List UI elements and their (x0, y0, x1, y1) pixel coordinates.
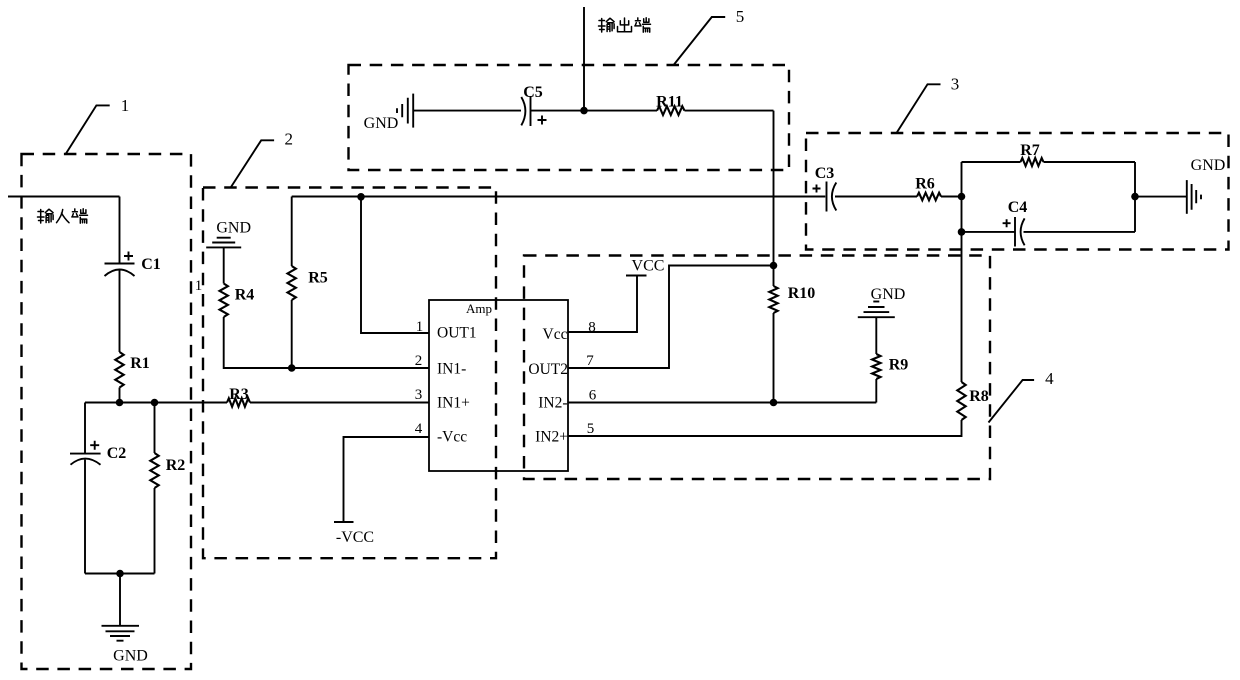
resistor R11 (657, 106, 685, 115)
dashed box 2 (first amp stage) (203, 188, 496, 559)
svg-text:-VCC: -VCC (336, 529, 374, 546)
junction OUT2/R10 (770, 262, 778, 270)
svg-text:-Vcc: -Vcc (437, 429, 467, 446)
wire pin6 rail (568, 402, 876, 404)
svg-text:GND: GND (113, 648, 148, 665)
dashed box 4 (second amp stage) (524, 256, 990, 480)
svg-text:C1: C1 (141, 256, 161, 273)
ground symbol box2 (217, 237, 231, 239)
wire R6 to node (941, 196, 962, 198)
svg-text:GND: GND (364, 115, 399, 132)
svg-text:IN2-: IN2- (538, 395, 567, 412)
svg-text:R10: R10 (788, 285, 816, 302)
junction OUT1 riser (357, 193, 365, 201)
wire R5 to pin2 rail (291, 300, 293, 368)
wire OUT1 riser to pin1 (361, 197, 429, 333)
wire R7 branch right (1044, 161, 1136, 163)
svg-text:7: 7 (586, 353, 594, 369)
wire left branch riser (961, 162, 963, 232)
wire ground to R9 (875, 317, 877, 354)
wire pin4 to -VCC (344, 437, 430, 522)
wire R2 to bottom rail (154, 488, 156, 574)
wire horizontal node row to R3 (85, 402, 227, 404)
svg-text:1: 1 (195, 278, 203, 294)
wire node to C2 (84, 403, 86, 454)
wire node to R2 (154, 403, 156, 454)
wire R1 to node (119, 388, 121, 403)
resistor R1 (115, 352, 123, 388)
wire to ground box1 (119, 574, 121, 626)
svg-text:OUT1: OUT1 (437, 324, 477, 341)
wire node to ground box3 (1135, 196, 1187, 198)
svg-text:1: 1 (416, 319, 424, 335)
wire ground to R4 (223, 247, 225, 283)
wire node down to R8 (961, 232, 963, 382)
junction output node (580, 107, 588, 115)
wire R7 branch left (962, 161, 1021, 163)
svg-text:2: 2 (415, 353, 423, 369)
junction R4/R5 pin2 (288, 364, 296, 372)
svg-text:VCC: VCC (632, 258, 665, 275)
svg-text:IN1-: IN1- (437, 361, 466, 378)
svg-text:GND: GND (216, 220, 251, 237)
svg-text:5: 5 (736, 7, 745, 26)
resistor R7 (1021, 158, 1044, 166)
wire C4 branch right (1024, 231, 1136, 233)
junction R1 bottom (116, 399, 124, 407)
junction R10 bottom pin6 (770, 399, 778, 407)
label 5 leader (674, 17, 725, 65)
wire R11 to descender (685, 110, 774, 112)
svg-text:IN2+: IN2+ (535, 429, 568, 446)
svg-text:4: 4 (1045, 369, 1054, 388)
svg-text:Vcc: Vcc (543, 326, 568, 343)
svg-text:GND: GND (871, 286, 906, 303)
svg-text:4: 4 (415, 421, 423, 437)
wire pin5 rail (568, 420, 962, 436)
wire output riser (583, 7, 585, 111)
svg-text:R11: R11 (656, 94, 683, 111)
resistor R4 (220, 284, 228, 318)
wire C5 to output node (531, 110, 658, 112)
svg-text:C5: C5 (523, 84, 543, 101)
junction C4 left node (958, 228, 966, 236)
VCC bar (626, 275, 647, 277)
wire output descender (773, 111, 775, 266)
svg-text:OUT2: OUT2 (528, 361, 568, 378)
ground GND box1 (102, 625, 140, 627)
wire right branch riser (1134, 162, 1136, 232)
junction R7/C4 right node (1131, 193, 1139, 201)
svg-text:R4: R4 (235, 287, 255, 304)
svg-text:C2: C2 (107, 445, 127, 462)
capacitor C1 (105, 263, 135, 265)
output terminal label 输出端 (599, 18, 615, 32)
capacitor C3 (813, 185, 821, 193)
junction R2 top (151, 399, 159, 407)
ground symbol box5 sideways (412, 94, 414, 128)
capacitor C4 (1003, 219, 1011, 227)
wire top feedback rail (292, 196, 826, 198)
svg-text:IN1+: IN1+ (437, 395, 470, 412)
resistor R8 (957, 382, 965, 420)
label 3 leader (897, 84, 941, 133)
svg-text:R3: R3 (229, 386, 249, 403)
capacitor C2 (70, 453, 101, 455)
svg-text:R9: R9 (889, 357, 909, 374)
svg-text:GND: GND (1191, 157, 1226, 174)
svg-text:R8: R8 (969, 388, 989, 405)
svg-text:3: 3 (415, 387, 423, 403)
svg-text:R6: R6 (915, 176, 935, 193)
svg-text:R5: R5 (308, 270, 328, 287)
wire R4 to pin2 rail (224, 317, 429, 368)
label 1 leader (66, 105, 110, 153)
wire bottom rail (85, 573, 155, 575)
wire C1 to R1 (119, 270, 121, 352)
dashed box 3 (feedback network) (806, 133, 1229, 250)
dashed box 5 (output stage) (349, 65, 790, 170)
-VCC bar (334, 521, 354, 523)
ground symbol box3 sideways (1186, 180, 1188, 214)
svg-text:5: 5 (587, 421, 595, 437)
svg-text:C4: C4 (1008, 199, 1028, 216)
svg-text:C3: C3 (815, 165, 835, 182)
svg-text:R1: R1 (130, 355, 150, 372)
wire pin7 OUT2 to R10 node (568, 266, 774, 369)
wire C3 to R6 (835, 196, 917, 198)
wire input horizontal (8, 196, 120, 198)
dashed box 1 (input stage) (22, 154, 192, 669)
op-amp U1 Amp body (429, 300, 568, 471)
svg-text:1: 1 (121, 96, 130, 115)
capacitor C5 (521, 97, 525, 125)
svg-text:2: 2 (285, 130, 294, 149)
junction bottom rail (116, 570, 124, 578)
resistor R5 (288, 266, 296, 300)
input terminal label 输入端 (38, 209, 54, 223)
wire C2 to bottom rail (84, 460, 86, 574)
wire C1 top stem (119, 197, 121, 264)
svg-text:R2: R2 (166, 457, 186, 474)
resistor R3 (227, 398, 250, 406)
label 2 leader (231, 140, 274, 187)
wire R5 top stem (291, 197, 293, 267)
wire ground to C5 (413, 110, 521, 112)
svg-text:3: 3 (951, 75, 960, 94)
wire R9 to pin6 rail (875, 379, 877, 403)
ground symbol box4 inverted (873, 301, 879, 303)
resistor R6 (917, 193, 941, 201)
resistor R2 (150, 453, 158, 488)
wire C4 branch left (962, 231, 1016, 233)
svg-text:Amp: Amp (466, 301, 492, 316)
label 4 leader (989, 380, 1035, 423)
svg-text:6: 6 (589, 388, 597, 404)
wire R3 to pin3 (250, 402, 429, 404)
svg-text:R7: R7 (1020, 142, 1040, 159)
wire pin8 to VCC (568, 276, 637, 333)
resistor R9 (872, 354, 880, 379)
junction R6/R7 node (958, 193, 966, 201)
svg-text:8: 8 (588, 320, 596, 336)
resistor R10 (773, 266, 775, 403)
